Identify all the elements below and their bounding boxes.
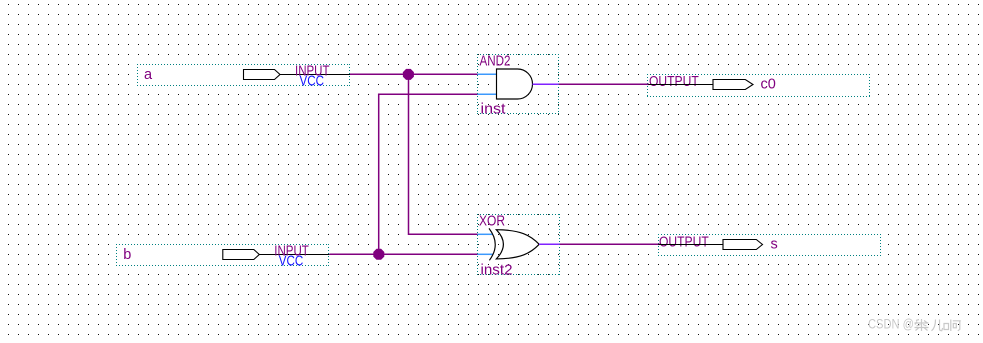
AND gate body bbox=[497, 69, 533, 99]
svg-text:OUTPUT: OUTPUT bbox=[649, 74, 699, 90]
svg-text:c0: c0 bbox=[761, 77, 776, 93]
svg-text:VCC: VCC bbox=[300, 73, 325, 89]
pin line a bbox=[280, 74, 350, 76]
input pin b bbox=[116, 244, 329, 270]
svg-text:a: a bbox=[144, 67, 153, 83]
selection box a bbox=[137, 64, 350, 86]
output pin c0 bbox=[647, 74, 870, 97]
XOR input stub 2 bbox=[478, 253, 493, 255]
arrow symbol a bbox=[244, 70, 281, 80]
selection box XOR bbox=[477, 215, 560, 275]
XOR input stub 1 bbox=[478, 233, 493, 235]
CJK glyph 1 bbox=[915, 319, 929, 331]
svg-text:b: b bbox=[123, 247, 131, 263]
wire nub into c0 box bbox=[647, 83, 649, 85]
wire AND2 output to c0 bbox=[559, 83, 649, 85]
arrow symbol s bbox=[723, 240, 763, 250]
svg-text:CSDN @: CSDN @ bbox=[868, 317, 914, 332]
wire XOR output to s bbox=[560, 243, 659, 245]
AND output stub bbox=[533, 83, 559, 85]
AND gate U1 bbox=[477, 54, 559, 118]
watermark bbox=[868, 317, 961, 332]
XOR gate U2 bbox=[477, 214, 560, 279]
AND input stub 2 bbox=[478, 93, 497, 95]
svg-text:XOR: XOR bbox=[479, 214, 505, 230]
wire net a: input a to AND2 input 1 bbox=[350, 73, 478, 75]
wire net a vertical branch to XOR input 1 bbox=[409, 74, 478, 234]
pin line s bbox=[658, 244, 723, 246]
wire net b: input b to XOR input 2 bbox=[329, 253, 477, 255]
output pin s bbox=[658, 234, 881, 256]
svg-text:OUTPUT: OUTPUT bbox=[659, 234, 709, 250]
AND input stub 1 bbox=[478, 73, 497, 75]
svg-text:AND2: AND2 bbox=[480, 54, 511, 70]
selection box c0 bbox=[647, 74, 870, 96]
XOR output stub bbox=[539, 243, 560, 245]
pin line c0 bbox=[648, 84, 713, 86]
wire nub into s box bbox=[658, 243, 660, 245]
arrow symbol c0 bbox=[713, 80, 753, 90]
svg-text:s: s bbox=[771, 237, 778, 253]
junction node on net b bbox=[373, 249, 384, 260]
XOR gate body bbox=[496, 230, 539, 259]
svg-text:VCC: VCC bbox=[279, 253, 304, 269]
CJK glyph 2 bbox=[932, 320, 943, 331]
input pin a bbox=[137, 64, 350, 90]
svg-text:inst: inst bbox=[481, 102, 506, 118]
arrow symbol b bbox=[223, 250, 259, 260]
svg-text:inst2: inst2 bbox=[481, 263, 513, 279]
selection box b bbox=[116, 244, 329, 266]
CJK glyph 3 bbox=[944, 320, 961, 332]
junction node on net a bbox=[403, 69, 414, 80]
XOR rear arc bbox=[489, 228, 495, 260]
pin line b bbox=[259, 254, 329, 256]
wire branch to AND2 input 2 bbox=[379, 94, 478, 254]
selection box AND2 bbox=[477, 55, 559, 114]
selection box s bbox=[658, 234, 881, 256]
